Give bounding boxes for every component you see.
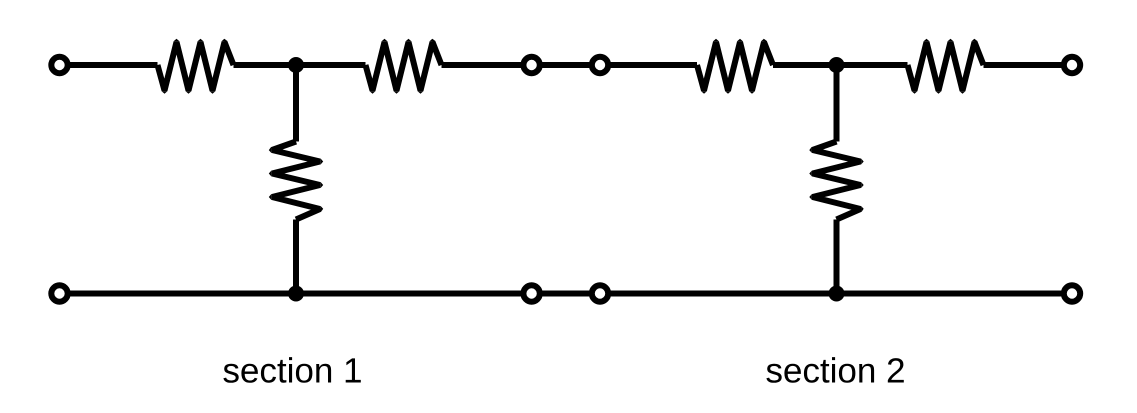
wire top rail R3 to node B <box>773 62 837 68</box>
wire top rail node A to R2 <box>296 62 366 68</box>
wire top rail between middle terminals <box>532 62 600 68</box>
label section 2 <box>766 357 903 383</box>
resistor series R3 (section 2 input arm) <box>697 39 773 94</box>
resistor series R2 (section 1 output arm) <box>366 39 442 94</box>
label section 1 <box>223 357 360 383</box>
terminal section 1 output bottom <box>523 285 539 301</box>
resistor shunt R5 (section 1) <box>269 142 323 220</box>
resistor shunt R6 (section 2) <box>809 142 863 220</box>
terminal section 1 output top <box>523 57 539 73</box>
resistor series R4 (section 2 output arm) <box>908 39 984 94</box>
wire top rail left segment <box>60 62 158 68</box>
wire top rail right segment <box>984 62 1073 68</box>
wire top rail R2 to section 1 output terminal <box>442 62 532 68</box>
terminal section 2 output top <box>1064 57 1080 73</box>
terminal section 1 input bottom <box>51 285 67 301</box>
junction node section 2 bottom <box>829 286 845 302</box>
wire bottom rail <box>60 291 1073 297</box>
resistor series R1 (section 1 input arm) <box>158 39 234 94</box>
terminal section 2 input bottom <box>592 285 608 301</box>
junction node B (section 2 top) <box>829 57 845 73</box>
terminal section 2 output bottom <box>1064 285 1080 301</box>
terminal section 2 input top <box>592 57 608 73</box>
wire top rail node B to R4 <box>837 62 908 68</box>
wire top rail R1 to node A <box>234 62 297 68</box>
terminal section 1 input top <box>51 57 67 73</box>
junction node section 1 bottom <box>288 286 304 302</box>
wire shunt section 1 lower <box>293 220 299 294</box>
wire shunt section 1 upper <box>293 65 299 142</box>
wire shunt section 2 upper <box>834 65 840 142</box>
wire shunt section 2 lower <box>834 220 840 294</box>
wire top rail section 2 input terminal to R3 <box>600 62 697 68</box>
junction node A (section 1 top) <box>288 57 304 73</box>
